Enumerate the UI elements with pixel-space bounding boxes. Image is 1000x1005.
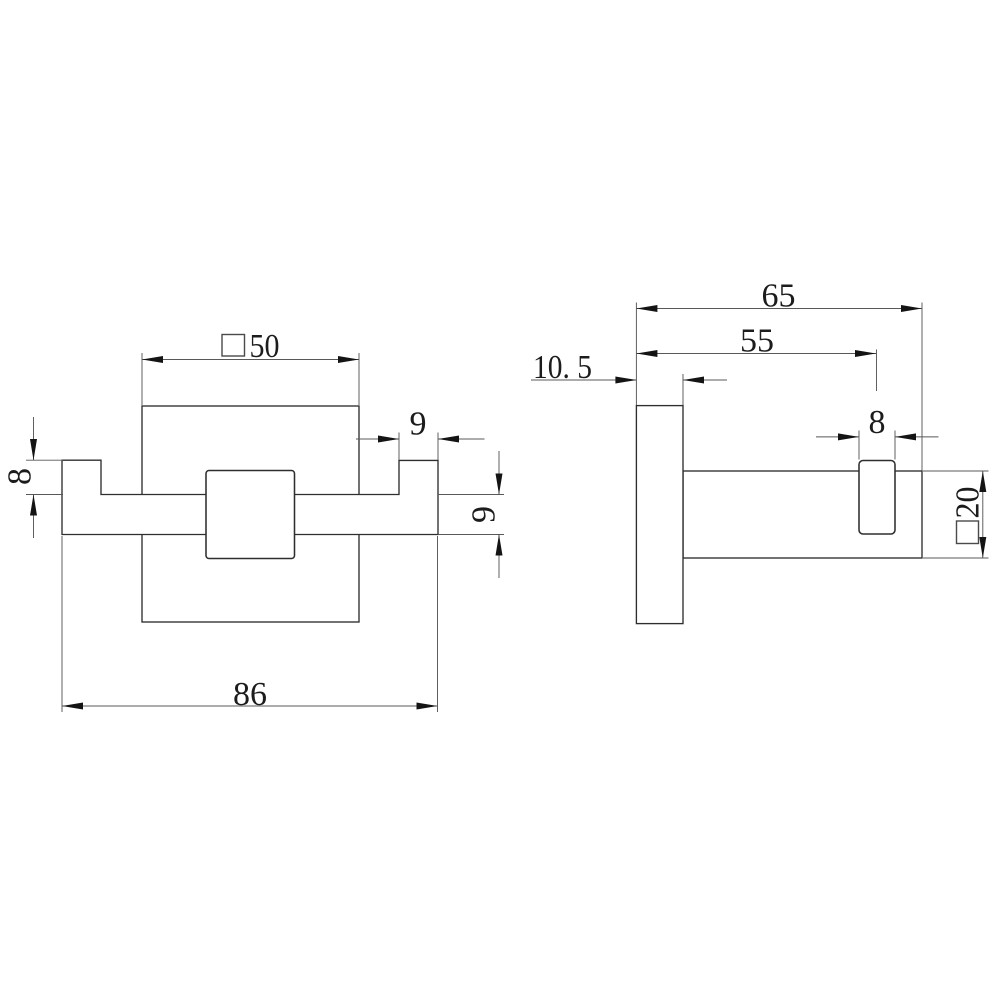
svg-text:9: 9 xyxy=(466,506,503,523)
dimension 50 (top) xyxy=(142,353,359,405)
dimension 8 (left tab height) xyxy=(26,417,63,538)
dimension 86 (bottom) xyxy=(62,536,438,712)
svg-text:9: 9 xyxy=(410,406,427,443)
svg-text:86: 86 xyxy=(233,676,267,713)
svg-text:50: 50 xyxy=(250,328,280,365)
svg-text:20: 20 xyxy=(950,487,987,519)
bar with end tabs (86 wide rail) xyxy=(62,460,438,534)
label square-20 (rotated) xyxy=(950,487,987,544)
svg-text:8: 8 xyxy=(2,468,39,485)
svg-text:10. 5: 10. 5 xyxy=(533,349,592,386)
dimension square-20 (arm height, right) xyxy=(923,471,989,558)
svg-text:8: 8 xyxy=(869,404,886,441)
wall plate (vertical) xyxy=(636,406,683,624)
dimension 65 (top) xyxy=(636,303,922,471)
svg-text:65: 65 xyxy=(762,278,796,315)
dimension 9 (top right tab width) xyxy=(356,433,485,461)
label square-50 xyxy=(222,328,280,365)
svg-text:55: 55 xyxy=(740,323,774,360)
dimension 10.5 (plate thickness) xyxy=(531,374,727,405)
dimension 55 xyxy=(636,350,876,392)
dimension 9 (bar thickness, right side) xyxy=(438,451,504,578)
center hook boss (20 square) xyxy=(206,471,295,559)
dimension 8 (hook peg width) xyxy=(816,431,939,460)
hook peg (8 wide) xyxy=(859,461,895,535)
arm (horizontal body) xyxy=(683,471,922,558)
front plate (50x50 square) xyxy=(142,406,359,622)
